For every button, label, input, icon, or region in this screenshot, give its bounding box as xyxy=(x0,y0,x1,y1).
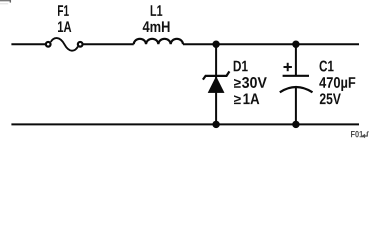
wire: capacitor C1 top lead xyxy=(295,44,297,76)
label F1 reference xyxy=(58,5,69,16)
fuse F1 body: left terminal circle xyxy=(46,42,51,47)
cropped table-border corner artifact top-left xyxy=(0,0,11,4)
node B: junction dot, top rail / C1 positive xyxy=(292,41,299,48)
node D: junction dot, bottom rail / C1 negative xyxy=(292,121,299,128)
wire: capacitor C1 bottom lead xyxy=(295,87,297,125)
label L1 reference xyxy=(151,5,163,16)
node A: junction dot, top rail / D1 cathode xyxy=(212,41,219,48)
label D1 rating 1A xyxy=(244,94,260,105)
fuse F1 body: S-curve element xyxy=(51,38,78,51)
inductor L1 winding (4 arcs) xyxy=(134,39,183,45)
capacitor C1 positive plate (straight) xyxy=(283,75,309,77)
node C: junction dot, bottom rail / D1 anode xyxy=(212,121,219,128)
label C1 value 25V xyxy=(320,93,341,104)
capacitor C1 negative plate (curved) xyxy=(280,87,313,92)
label D1 rating greater-equal sign line3 xyxy=(234,95,241,104)
capacitor C1 polarity plus sign xyxy=(284,63,292,71)
figure code F01 xyxy=(351,131,363,138)
wire: fuse F1 to inductor L1 xyxy=(83,43,134,45)
label D1 rating 30V xyxy=(242,77,267,88)
fuse F1 body: right terminal circle xyxy=(78,42,83,47)
wire: inductor L1 through node A, node B to top-right output xyxy=(183,43,359,45)
label F1 value 1A xyxy=(58,21,71,32)
label C1 value 470uF xyxy=(319,77,355,91)
wire: bottom return rail xyxy=(11,123,359,125)
label D1 rating greater-equal sign line2 xyxy=(234,79,241,88)
zener diode D1 cathode bar with bent zener wings xyxy=(203,71,230,79)
figure code return-arrow glyph xyxy=(364,132,368,136)
label L1 value 4mH xyxy=(143,21,170,32)
label C1 reference xyxy=(320,61,334,72)
wire: top rail input to fuse F1 xyxy=(11,43,45,45)
wire: zener D1 branch vertical xyxy=(215,44,217,124)
label D1 reference xyxy=(234,61,248,72)
zener diode D1 anode triangle (pointing up) xyxy=(208,77,224,93)
